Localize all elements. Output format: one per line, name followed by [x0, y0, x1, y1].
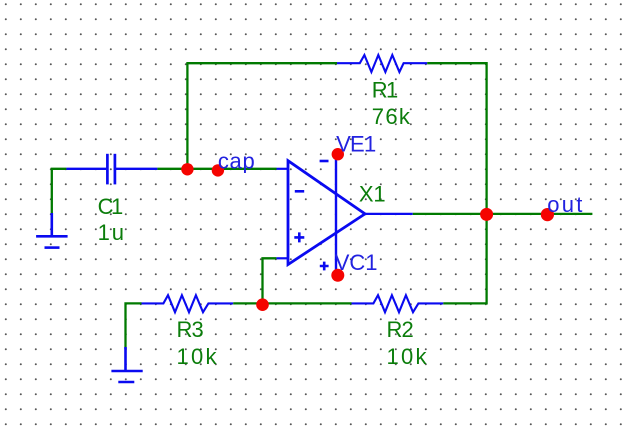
svg-text:X1: X1 — [359, 181, 386, 206]
wire input net (cap to op-amp inverting input) — [157, 168, 276, 170]
junction dot at out label node — [541, 208, 554, 221]
svg-text:VE1: VE1 — [336, 132, 376, 157]
resistor R1 — [337, 55, 427, 72]
wire top horizontal left (to R1) — [186, 62, 337, 64]
op-amp non-inverting input plus sign — [294, 232, 304, 242]
ground (below R3 left branch) — [111, 347, 142, 382]
wire feedback riser from cap node up — [186, 63, 188, 169]
resistor R3 — [142, 295, 234, 312]
op-amp U1 non-inverting input stub — [276, 257, 288, 259]
junction dot at non-inverting/bottom rail node — [256, 298, 269, 311]
ground (below C1 left branch) — [36, 213, 68, 248]
wire from non-inverting input down to bottom rail — [263, 258, 277, 303]
wire output net to out label — [413, 213, 593, 215]
op-amp output stub — [365, 213, 413, 215]
wire from out node down to bottom rail right corner — [443, 214, 486, 303]
junction dot VC1 pin — [331, 269, 344, 282]
svg-text:10k: 10k — [387, 344, 428, 369]
junction dot at cap label node — [212, 164, 224, 176]
svg-text:R2: R2 — [387, 317, 414, 342]
svg-text:cap: cap — [218, 149, 255, 174]
capacitor C1 — [66, 154, 157, 185]
junction dot at cap/feedback node — [181, 163, 193, 175]
svg-text:10k: 10k — [177, 344, 218, 369]
svg-text:R3: R3 — [177, 317, 204, 342]
svg-text:1u: 1u — [98, 220, 124, 245]
svg-text:R1: R1 — [372, 78, 399, 103]
wire top horizontal right and down to out node — [427, 63, 486, 214]
wire left branch corner to capacitor — [52, 169, 67, 215]
wire bottom rail left corner — [126, 303, 142, 349]
svg-text:76k: 76k — [372, 104, 411, 129]
wire bottom rail middle — [233, 302, 351, 304]
resistor R2 — [352, 295, 444, 312]
junction dot VE1 pin — [332, 148, 344, 160]
op-amp X1 power rail line VE1-VC1 — [335, 154, 337, 275]
op-amp minus sign at VE pin — [320, 160, 329, 163]
op-amp U1 inverting input stub — [277, 168, 289, 170]
svg-text:VC1: VC1 — [335, 250, 378, 275]
op-amp plus sign at VC pin — [320, 262, 329, 271]
svg-text:C1: C1 — [98, 194, 124, 219]
op-amp X1 triangle body — [288, 161, 365, 265]
svg-text:out: out — [547, 192, 582, 217]
junction dot at output/feedback node — [480, 208, 493, 221]
op-amp inverting input minus sign — [295, 190, 304, 193]
